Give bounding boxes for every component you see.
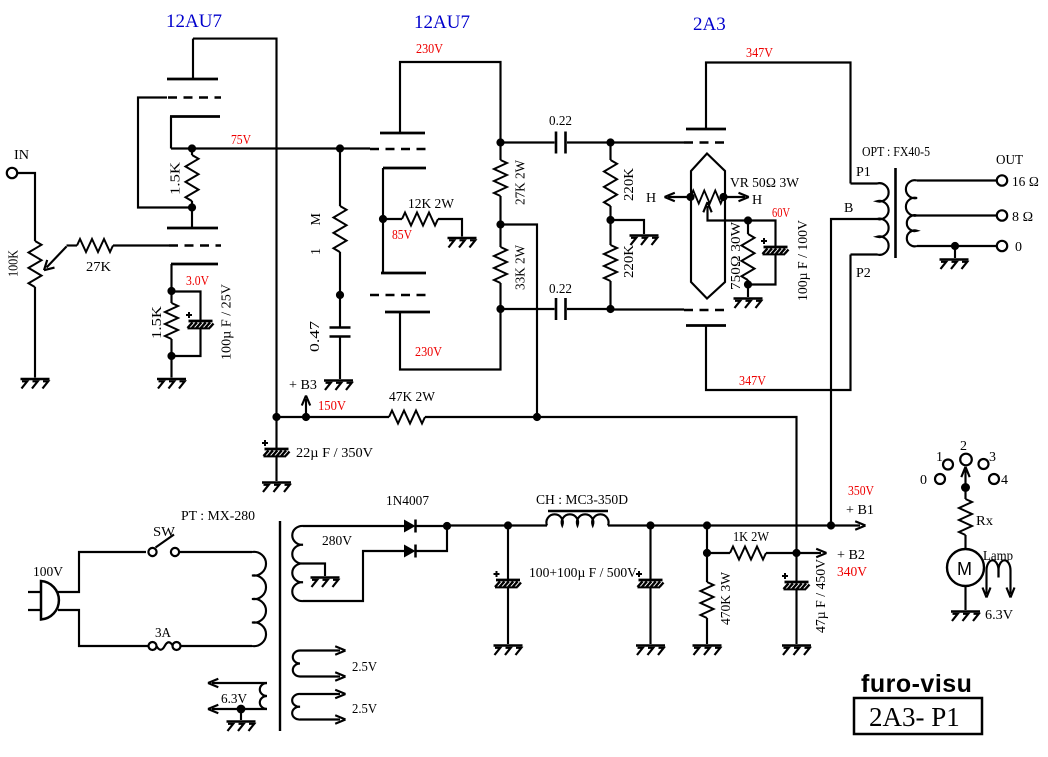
svg-text:+ B2: + B2 [837,548,865,563]
node secondary ground [951,242,959,250]
svg-text:2.5V: 2.5V [352,702,377,717]
svg-text:100K: 100K [7,250,22,277]
arrow +B2 [797,552,822,554]
OPT secondary winding [906,180,917,215]
resistor 1M [339,149,341,207]
V2a cathode [383,167,426,170]
OPT B tap [831,219,877,526]
wires plug to PT [58,552,148,646]
ground 0.47 [324,381,353,391]
heater arrow left [668,196,691,198]
resistor 1.5K (V1a cathode) [191,149,193,156]
svg-text:230V: 230V [415,344,442,359]
svg-text:3: 3 [989,450,996,465]
node cathode V1a [188,144,196,152]
hum pot VR 50ohm [691,191,724,204]
V1a cathode [170,115,220,118]
capacitor 0.47 [339,295,341,327]
resistor Rx [964,488,966,500]
svg-text:27K: 27K [86,260,111,275]
V1b grid [169,244,221,246]
wiper arrow VR [708,206,749,221]
svg-text:347V: 347V [739,373,766,388]
capacitor 100uF/100V [748,221,776,285]
V3 grid bottom [684,309,729,311]
svg-text:100V: 100V [33,565,63,580]
B1 rail [447,524,860,526]
V1a grid return wire [138,98,192,208]
arrow +B1 [855,521,865,529]
input terminal [7,168,17,178]
svg-text:347V: 347V [746,45,773,60]
resistor 1K 2W [707,552,730,554]
svg-text:2A3- P1: 2A3- P1 [869,702,960,732]
wire 75V node [171,147,370,149]
node after cap lower [606,305,614,313]
wire 347V top [706,63,851,184]
node bottom [167,352,175,360]
svg-text:1.5K: 1.5K [169,162,184,195]
svg-text:150V: 150V [318,398,346,413]
svg-text:H: H [752,193,762,208]
wire 27K to grid [113,244,169,246]
ground 220K [630,236,659,246]
svg-text:CH : MC3-350D: CH : MC3-350D [536,493,628,508]
svg-text:16 Ω: 16 Ω [1012,175,1039,190]
node 1K left [703,549,711,557]
svg-text:220K: 220K [622,168,637,201]
heater arrow right [724,196,746,198]
V2a grid [370,148,432,150]
node cap2 [646,521,654,529]
svg-text:470K 3W: 470K 3W [719,571,734,625]
svg-text:4: 4 [1001,473,1008,488]
svg-text:SW: SW [153,525,176,540]
OPT primary winding [851,183,889,255]
svg-text:12K 2W: 12K 2W [408,197,455,212]
motor M circle [947,549,984,586]
wire pot to ground [34,287,36,378]
PT primary winding [252,552,266,646]
V1b plate [167,227,218,230]
svg-text:230V: 230V [416,41,443,56]
node cap1 [504,521,512,529]
center tap to ground [303,564,325,577]
node 220K mid [606,216,614,224]
filament envelope 2A3 [691,154,725,299]
svg-text:100+100µ F / 500V: 100+100µ F / 500V [529,566,637,581]
svg-text:340V: 340V [837,564,867,579]
V1a grid [168,96,221,98]
PT 2.5V winding 2 [292,694,300,720]
socket pin 1 [943,460,953,470]
svg-text:Rx: Rx [976,514,993,529]
wire to bypass cap [172,292,201,357]
svg-text:M: M [957,559,972,579]
svg-text:1: 1 [936,450,943,465]
capacitor 100uF/25V [186,312,214,328]
PT 280V winding [292,526,303,601]
svg-text:0.22: 0.22 [549,114,572,129]
PT core [279,521,281,731]
node diodes [443,522,451,530]
node 6.3V CT [237,705,246,714]
diode 1N4007 lower [404,545,416,558]
svg-text:1N4007: 1N4007 [386,494,429,509]
resistor 27K 2W [496,138,504,146]
capacitor 100+100uF 1 [507,526,509,581]
wire 230V top [400,62,501,143]
resistor 750ohm 30W [747,221,749,235]
V3 plate bottom [686,324,726,327]
svg-text:47µ F / 450V: 47µ F / 450V [814,559,829,633]
node 27K/33K [496,220,504,228]
svg-text:2A3: 2A3 [693,14,726,35]
resistor 220K lower [604,245,617,281]
svg-text:IN: IN [14,148,29,163]
wire input to pot [17,173,35,241]
capacitor 100+100uF 2 [649,526,651,581]
svg-text:280V: 280V [322,534,352,549]
svg-text:B: B [844,201,853,216]
svg-text:220K: 220K [622,245,637,278]
potentiometer VR 100K [29,241,42,287]
node 750 top [744,216,752,224]
svg-text:75V: 75V [231,132,251,147]
svg-text:furo-visu: furo-visu [861,670,972,698]
node 1M top [336,144,344,152]
svg-text:0: 0 [1015,240,1022,255]
OPT core [894,168,897,258]
ground secondary [940,260,969,270]
wire to B line [501,225,538,418]
svg-text:85V: 85V [392,227,412,242]
svg-text:12AU7: 12AU7 [166,11,222,32]
svg-text:1.5K: 1.5K [150,306,165,339]
svg-text:12AU7: 12AU7 [414,12,470,33]
V2b grid [370,294,432,296]
V2b plate [381,272,426,275]
socket pin 4 [989,474,999,484]
socket pin 0 [935,474,945,484]
wire M to ground [964,586,966,610]
svg-text:6.3V: 6.3V [221,692,247,707]
wire 347V bottom [706,255,851,391]
svg-text:OPT : FX40-5: OPT : FX40-5 [862,145,930,160]
V1a plate [192,39,194,79]
plug prongs [28,592,41,610]
svg-text:8 Ω: 8 Ω [1012,210,1033,225]
node B1/B [827,521,835,529]
wire B3 rail [277,417,797,553]
tube V1a plate top wire [193,39,277,417]
svg-text:1K 2W: 1K 2W [733,530,770,545]
resistor 12K 2W [383,218,402,220]
socket node [961,483,970,492]
svg-text:0: 0 [920,473,927,488]
node 33K bottom [496,305,504,313]
node bottom 1.5K [188,203,196,211]
svg-text:33K 2W: 33K 2W [514,244,529,290]
wire SRPP mid [382,168,384,273]
svg-text:6.3V: 6.3V [985,608,1013,623]
svg-text:VR 50Ω 3W: VR 50Ω 3W [730,176,800,191]
svg-text:2.5V: 2.5V [352,660,377,675]
heater 6.3V arrows [212,682,267,684]
capacitor 0.22 upper [501,141,611,143]
svg-text:PT : MX-280: PT : MX-280 [181,509,255,524]
capacitor 0.22 lower [501,308,611,310]
wire 280V bottom to diode [303,551,404,601]
svg-text:0.22: 0.22 [549,282,572,297]
capacitor 22uF/350V [275,417,277,449]
wiper arrow [47,247,67,268]
wire cathode to ground [170,356,172,378]
title box 2A3-P1 [854,698,982,734]
V2a plate [380,132,425,135]
ground V1b cathode [157,379,186,389]
resistor 33K 2W [494,247,507,283]
OUT wires [917,179,997,181]
PT 2.5V winding 1 [293,651,300,677]
svg-text:3A: 3A [155,626,172,641]
svg-text:27K 2W: 27K 2W [514,159,529,205]
node 12K [379,215,387,223]
socket pin 2 [960,454,972,466]
ground pot [21,379,50,389]
svg-text:2: 2 [960,439,967,454]
resistor 1.5K (V1b cathode) [170,291,172,303]
svg-text:+ B3: + B3 [289,378,317,393]
V1b cathode [171,263,218,266]
node after cap [606,138,614,146]
svg-text:47K 2W: 47K 2W [389,390,436,405]
svg-text:H: H [646,191,656,206]
svg-text:100µ F / 25V: 100µ F / 25V [220,284,235,360]
resistor 470K 3W [706,553,708,582]
wire to ground [611,220,645,234]
svg-text:100µ F / 100V: 100µ F / 100V [796,220,811,301]
svg-text:OUT: OUT [996,153,1023,168]
node 750 bottom [744,280,752,288]
svg-text:P1: P1 [856,165,871,180]
node B2 [792,549,800,557]
ground 22uF [262,483,291,493]
socket pin 3 [979,459,989,469]
arrow +B3 [305,399,307,417]
V3 plate top [686,128,726,131]
resistor 220K upper [609,143,611,161]
svg-text:P2: P2 [856,266,871,281]
node cathode V1b [167,287,175,295]
svg-text:750Ω 30W: 750Ω 30W [729,221,744,290]
capacitor 47uF/450V [795,553,797,582]
resistor R 27K [67,244,78,246]
wire cathode down 230V [400,309,501,370]
svg-text:3.0V: 3.0V [186,273,209,288]
V2b cathode [385,311,430,314]
resistor 47K 2W [389,411,425,424]
svg-text:60V: 60V [772,205,790,220]
arrow to pin2 [964,470,966,488]
svg-text:0.47: 0.47 [308,321,323,352]
V3 grid top [684,141,729,143]
wire 280V top to diode [303,525,404,527]
node B2 branch [703,521,711,529]
PT 6.3V winding [260,683,267,709]
node 1M bottom [336,291,344,299]
ground 12K [448,238,477,248]
svg-text:350V: 350V [848,483,874,498]
svg-text:22µ F / 350V: 22µ F / 350V [296,446,373,461]
svg-text:+ B1: + B1 [846,503,874,518]
ground 750 [734,299,763,309]
